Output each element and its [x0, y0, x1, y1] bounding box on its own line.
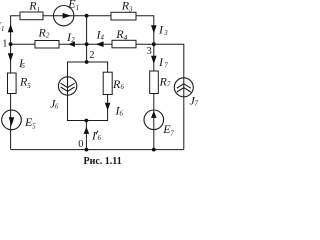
node 2 top junction dot of inner loop — [85, 60, 89, 64]
svg-text:0: 0 — [78, 139, 83, 150]
svg-text:6: 6 — [98, 135, 102, 142]
svg-text:5: 5 — [32, 123, 36, 130]
junction dot bottom right — [152, 148, 156, 152]
resistor R1 — [20, 0, 43, 20]
resistor R4 — [112, 27, 136, 48]
svg-text:2: 2 — [46, 33, 50, 40]
resistor R7 — [150, 71, 171, 94]
svg-text:6: 6 — [121, 84, 125, 91]
svg-text:7: 7 — [195, 101, 199, 108]
svg-text:3: 3 — [147, 46, 152, 57]
resistor R2 — [35, 26, 59, 49]
node 1 — [2, 38, 12, 49]
current arrow I7 — [151, 55, 168, 70]
svg-text:2: 2 — [71, 37, 75, 44]
EMF source E7 — [144, 110, 174, 137]
wire stub node 0 to inner loop — [85, 121, 87, 150]
caption — [84, 156, 122, 167]
svg-text:I: I — [158, 55, 164, 69]
junction dot top row — [85, 14, 89, 18]
svg-text:6: 6 — [120, 111, 124, 118]
EMF source E5 — [2, 110, 37, 130]
svg-text:I: I — [158, 23, 164, 37]
resistor R6 — [103, 72, 124, 94]
wire bottom row — [11, 149, 184, 151]
svg-text:4: 4 — [101, 35, 105, 42]
current source J6 — [50, 77, 77, 111]
svg-text:1: 1 — [2, 38, 7, 49]
wire inner loop rectangle — [68, 62, 108, 121]
current arrow I6 prime — [84, 127, 102, 143]
current source J7 — [174, 78, 198, 108]
node 2 junction dot on middle row — [85, 42, 95, 61]
wire top row from node 1 corner to top-right corner — [11, 16, 154, 45]
resistor R3 — [111, 0, 136, 20]
svg-text:7: 7 — [164, 63, 168, 70]
svg-text:1: 1 — [37, 7, 40, 14]
resistor R5 — [8, 73, 32, 94]
wire left vertical branch node1 to bottom — [10, 44, 12, 149]
wire far-right branch from node 3 down — [154, 44, 184, 149]
node 3 — [147, 42, 156, 57]
svg-text:4: 4 — [124, 35, 128, 42]
svg-text:Рис. 1.11: Рис. 1.11 — [84, 156, 122, 167]
svg-text:5: 5 — [27, 83, 31, 90]
current arrow I1 — [0, 19, 13, 33]
wire middle row node1 to node3 — [11, 43, 154, 45]
wire right vertical node3 to bottom — [153, 44, 155, 149]
current arrow I3 — [151, 23, 168, 38]
svg-text:3: 3 — [128, 7, 133, 14]
wire middle vertical from top junction to node 2 — [86, 16, 88, 62]
junction dot inner loop bottom — [85, 119, 89, 123]
node 0 — [78, 139, 88, 152]
EMF source E1 — [54, 0, 80, 26]
svg-text:2: 2 — [89, 50, 94, 61]
current arrow I5 — [8, 53, 26, 70]
svg-text:I: I — [91, 129, 97, 143]
current arrow I4 — [96, 28, 105, 48]
svg-text:3: 3 — [163, 30, 168, 37]
current arrow I6 — [105, 103, 124, 118]
svg-text:5: 5 — [22, 63, 26, 70]
svg-text:1: 1 — [1, 26, 4, 33]
svg-text:7: 7 — [167, 82, 171, 89]
svg-text:1: 1 — [76, 5, 79, 12]
svg-text:6: 6 — [55, 104, 59, 111]
svg-text:7: 7 — [170, 130, 174, 137]
current arrow I2 — [66, 30, 75, 47]
